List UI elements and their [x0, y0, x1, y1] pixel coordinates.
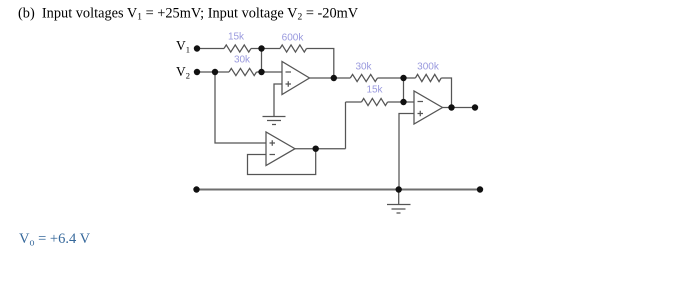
wire U3 output to riser — [295, 148, 346, 150]
wire U2 output to output terminal — [443, 107, 476, 109]
wire V2 terminal to R 30k — [197, 71, 229, 73]
wire R15k to node A — [251, 48, 280, 50]
U1 plus symbol — [286, 81, 292, 87]
ground stem (rail) — [398, 190, 400, 205]
ground rail wire — [197, 189, 481, 191]
wire V2 branch down to U3 noninverting input — [215, 72, 266, 143]
wire 30k to U1 inverting input — [257, 71, 283, 73]
wire 15k to U2 inverting input — [388, 101, 414, 103]
op-amp U3 triangle — [266, 132, 295, 166]
junction dot U2 output — [448, 104, 454, 110]
svg-text:300k: 300k — [417, 62, 440, 73]
terminal dot Vo output — [472, 104, 478, 110]
resistor 30k (V2 input) — [229, 68, 257, 75]
U2 plus symbol — [418, 111, 424, 117]
svg-text:600k: 600k — [282, 33, 305, 44]
junction dot U3 output — [313, 146, 319, 152]
resistor 30k (U1 output to U2) — [350, 74, 377, 81]
junction dot U1 output — [331, 75, 337, 81]
junction dot rail ground — [396, 186, 402, 192]
svg-text:30k: 30k — [355, 62, 372, 73]
wire U3 feedback loop — [248, 149, 316, 175]
U3 minus symbol — [270, 154, 276, 156]
terminal dot rail right — [477, 186, 483, 192]
svg-text:(b) Input voltages V1 = +25mV: (b) Input voltages V1 = +25mV; Input vol… — [18, 6, 359, 23]
svg-text:Vo = +6.4 V: Vo = +6.4 V — [19, 231, 91, 249]
resistor 15k (V1 input) — [224, 45, 251, 52]
wire 600k to U1 output node — [307, 49, 334, 79]
wire from U3 output riser to R 15k — [346, 101, 362, 103]
junction dot node B — [258, 69, 264, 75]
junction dot V2 branch — [212, 69, 218, 75]
wire node C down to U2 inverting input node — [403, 78, 405, 102]
op-amp U2 triangle — [414, 91, 443, 124]
wire V1 terminal to R 15k — [197, 48, 224, 50]
junction dot node C — [400, 75, 406, 81]
svg-text:30k: 30k — [234, 55, 251, 66]
wire U1 noninverting input to ground — [274, 84, 282, 117]
terminal dot rail left — [193, 186, 199, 192]
junction dot U2 inverting input — [400, 99, 406, 105]
svg-text:15k: 15k — [366, 85, 383, 96]
junction dot node A — [258, 45, 264, 51]
svg-text:V2: V2 — [176, 64, 190, 81]
svg-text:15k: 15k — [228, 32, 245, 43]
op-amp U1 triangle — [282, 62, 310, 95]
U2 minus symbol — [418, 101, 424, 103]
resistor 15k (U3 to U2) — [362, 98, 388, 105]
ground (U1 + input) — [263, 117, 286, 125]
U3 plus symbol — [270, 140, 276, 146]
resistor 600k (feedback U1) — [280, 45, 307, 52]
resistor 300k (feedback U2) — [415, 74, 441, 81]
svg-text:V1: V1 — [176, 38, 190, 55]
terminal dot V1 — [194, 45, 200, 51]
ground (bottom rail) — [387, 205, 411, 214]
wire 30k to node C and R 300k — [378, 77, 416, 79]
wire U1 output to R 30k — [310, 77, 351, 79]
terminal dot V2 — [194, 69, 200, 75]
wire U2 noninverting input down to ground rail — [399, 114, 414, 190]
wire 300k to U2 output node — [441, 78, 451, 108]
U1 minus symbol — [286, 71, 292, 73]
wire riser from U3 output up to 15k row — [345, 102, 347, 149]
wire node A to node B vertical — [261, 49, 263, 73]
